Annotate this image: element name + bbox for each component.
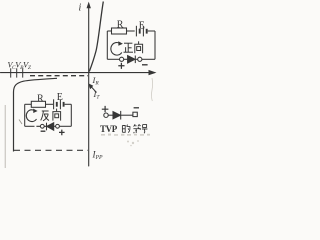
svg-text:TVP: TVP — [100, 124, 118, 134]
caption fu (symbol char 1) — [133, 124, 141, 133]
diode D1 forward — [128, 56, 135, 63]
diode D2 reversed — [46, 123, 48, 131]
wire top left — [25, 103, 32, 105]
vertical current axis i — [88, 4, 90, 166]
wire top right — [148, 30, 155, 32]
paper background — [0, 0, 163, 173]
wire top middle — [127, 30, 135, 32]
minus sign cathode — [142, 64, 148, 66]
text xiang (direction) — [135, 41, 143, 53]
plus sign TVP — [102, 106, 109, 112]
svg-text:E: E — [57, 92, 63, 103]
wire right side — [154, 31, 156, 59]
wire to diode — [124, 58, 128, 60]
peak current dashed level line — [14, 149, 88, 151]
diode D3 TVP — [113, 112, 120, 119]
text zheng (forward) — [124, 43, 134, 52]
caption hao (symbol char 2) — [142, 125, 148, 134]
wire right side — [70, 104, 72, 126]
battery E2 — [53, 99, 55, 109]
wire bottom right — [59, 125, 71, 127]
cathode terminal square — [133, 112, 137, 116]
wire bottom left — [107, 58, 119, 60]
wire bottom left — [25, 125, 35, 127]
svg-text:R: R — [37, 94, 44, 105]
svg-text:E: E — [139, 20, 145, 31]
tick V_B — [16, 68, 18, 77]
reverse breakdown curve — [14, 78, 58, 151]
minus sign left — [41, 130, 46, 132]
resistor R1 — [112, 28, 127, 34]
scan crease right — [151, 78, 152, 101]
horizontal voltage axis — [1, 72, 151, 74]
plus sign anode — [118, 63, 124, 69]
wire left side — [24, 104, 26, 126]
wire top middle — [46, 103, 54, 105]
axis arrow up — [87, 2, 91, 9]
wire — [108, 114, 113, 116]
node terminal + — [120, 57, 124, 61]
faint print bleed-through — [101, 134, 150, 147]
svg-text:R: R — [117, 19, 124, 30]
text xiang 2 (direction) — [53, 109, 61, 121]
wire circle to bar — [36, 125, 46, 127]
minus sign TVP — [134, 107, 139, 109]
battery E1 — [135, 26, 137, 37]
forward characteristic curve — [89, 2, 103, 72]
node terminal - left — [40, 124, 44, 128]
scan crease left — [4, 105, 6, 168]
node terminal - — [138, 57, 142, 61]
resistor R2 — [31, 101, 45, 107]
caption de (of) — [122, 125, 130, 133]
wire — [121, 114, 133, 116]
tick V_Z — [22, 68, 24, 77]
pointer arrow to curve — [91, 87, 97, 93]
wire top left — [107, 30, 111, 32]
anode terminal circle — [104, 113, 108, 117]
text fan (reverse) — [41, 111, 49, 121]
node terminal + right — [56, 124, 60, 128]
stray scan mark — [19, 120, 22, 125]
wire bottom right — [142, 58, 155, 60]
current direction arrow — [111, 43, 122, 56]
tick V_C — [10, 68, 12, 77]
axis arrow right — [149, 70, 157, 75]
svg-text:i: i — [79, 3, 82, 14]
current direction arrow reverse — [26, 110, 36, 122]
wire left side — [106, 31, 108, 59]
plus sign right — [59, 130, 65, 136]
wire top right — [65, 103, 72, 105]
reverse leakage dashed line — [30, 75, 88, 77]
